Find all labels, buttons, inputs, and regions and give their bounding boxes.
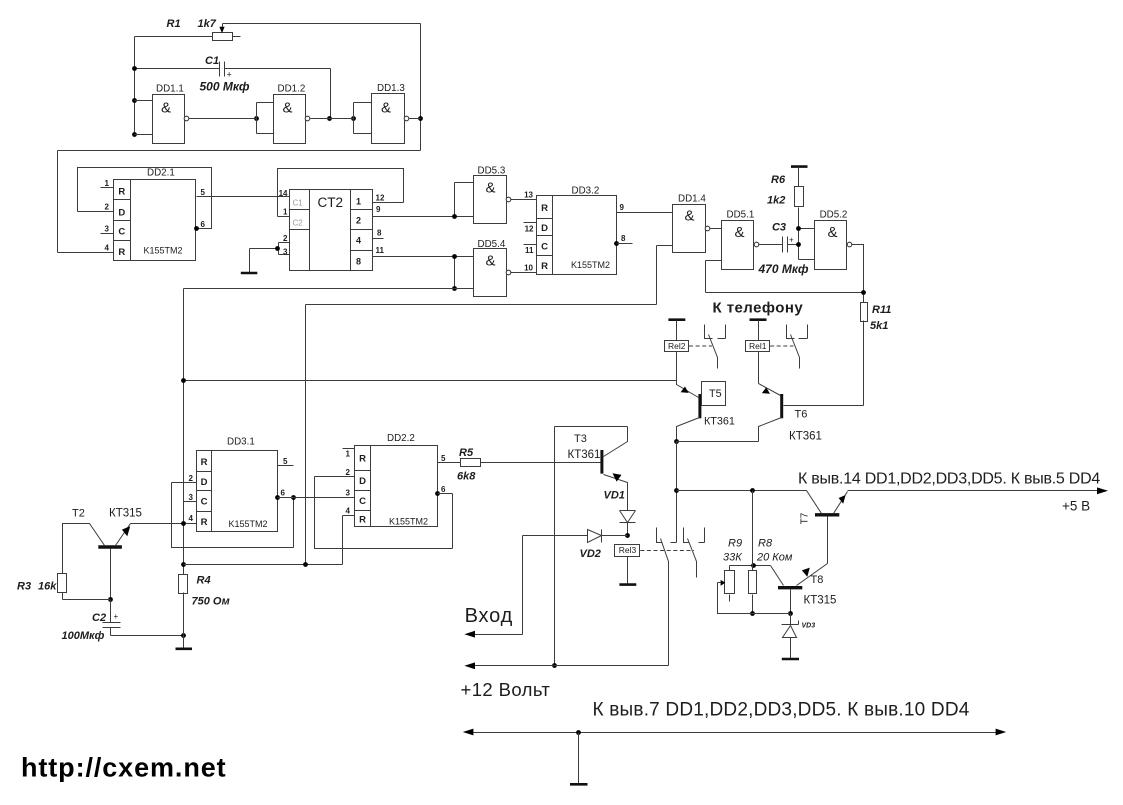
svg-text:4: 4	[105, 243, 110, 252]
svg-text:Т6: Т6	[795, 408, 808, 420]
svg-text:11: 11	[525, 246, 534, 255]
svg-text:Вход: Вход	[465, 605, 513, 627]
svg-text:&: &	[486, 180, 496, 197]
svg-text:DD1.4: DD1.4	[678, 193, 706, 204]
svg-text:DD1.3: DD1.3	[377, 83, 405, 94]
svg-text:+5 В: +5 В	[1062, 499, 1090, 514]
svg-text:5k1: 5k1	[870, 320, 888, 332]
svg-text:C: C	[118, 227, 125, 238]
svg-text:К выв.14 DD1,DD2,DD3,DD5. К вы: К выв.14 DD1,DD2,DD3,DD5. К выв.5 DD4	[798, 471, 1100, 488]
svg-text:1: 1	[356, 197, 361, 207]
svg-text:R1: R1	[167, 18, 181, 30]
svg-text:R4: R4	[197, 575, 211, 587]
svg-text:3: 3	[283, 247, 288, 256]
svg-text:K155TM2: K155TM2	[144, 246, 183, 256]
svg-text:9: 9	[620, 203, 625, 212]
svg-text:K155TM2: K155TM2	[571, 260, 610, 270]
svg-text:5: 5	[283, 457, 288, 466]
svg-text:Т8: Т8	[811, 574, 824, 586]
svg-text:Т3: Т3	[574, 433, 587, 445]
svg-text:2: 2	[105, 203, 110, 212]
svg-text:R6: R6	[771, 174, 786, 186]
svg-text:+12 Вольт: +12 Вольт	[461, 679, 551, 700]
svg-text:6: 6	[281, 489, 286, 498]
svg-text:8: 8	[377, 229, 382, 238]
svg-text:R9: R9	[728, 538, 742, 550]
svg-text:&: &	[735, 224, 745, 241]
svg-text:R5: R5	[459, 447, 474, 459]
svg-text:&: &	[161, 100, 171, 117]
svg-text:R: R	[201, 457, 208, 468]
svg-text:D: D	[118, 208, 125, 219]
svg-text:100Мкф: 100Мкф	[62, 630, 105, 642]
svg-text:10: 10	[524, 264, 533, 273]
svg-text:R: R	[118, 187, 125, 198]
svg-text:CT2: CT2	[318, 195, 344, 210]
svg-text:1: 1	[346, 450, 351, 459]
svg-text:D: D	[541, 223, 548, 234]
svg-text:D: D	[359, 476, 366, 487]
svg-text:750 Ом: 750 Ом	[192, 596, 230, 608]
svg-text:4: 4	[189, 514, 194, 523]
svg-text:VD2: VD2	[580, 548, 601, 560]
svg-text:6: 6	[441, 485, 446, 494]
svg-text:&: &	[381, 100, 391, 117]
svg-text:КТ361: КТ361	[568, 449, 601, 461]
svg-text:Rel2: Rel2	[668, 341, 686, 351]
svg-text:1: 1	[105, 179, 110, 188]
svg-text:C1: C1	[205, 55, 219, 67]
svg-text:C: C	[201, 497, 208, 508]
svg-text:К телефону: К телефону	[713, 300, 804, 317]
svg-text:C: C	[359, 496, 366, 507]
svg-text:6k8: 6k8	[457, 471, 476, 483]
svg-text:33К: 33К	[723, 552, 742, 564]
svg-text:4: 4	[356, 236, 361, 246]
svg-text:9: 9	[376, 205, 381, 214]
svg-text:5: 5	[441, 454, 446, 463]
svg-text:http://cxem.net: http://cxem.net	[21, 753, 227, 783]
svg-text:DD5.1: DD5.1	[727, 209, 755, 220]
svg-text:8: 8	[621, 234, 626, 243]
svg-text:2: 2	[346, 468, 351, 477]
svg-text:13: 13	[524, 191, 533, 200]
svg-text:Rel1: Rel1	[749, 341, 767, 351]
svg-text:2: 2	[356, 216, 361, 226]
svg-text:&: &	[486, 252, 496, 269]
svg-text:VD3: VD3	[802, 623, 816, 630]
svg-text:C1: C1	[293, 199, 304, 208]
svg-text:3: 3	[189, 493, 194, 502]
svg-text:1k2: 1k2	[767, 195, 785, 207]
svg-text:470 Мкф: 470 Мкф	[758, 262, 809, 276]
svg-text:КТ315: КТ315	[804, 595, 837, 607]
svg-text:R8: R8	[758, 538, 773, 550]
svg-text:Т2: Т2	[72, 508, 85, 520]
svg-text:8: 8	[356, 257, 361, 267]
svg-text:DD2.2: DD2.2	[387, 433, 415, 444]
svg-text:VD1: VD1	[604, 490, 625, 502]
svg-text:C2: C2	[293, 219, 304, 228]
svg-text:R: R	[118, 247, 125, 258]
svg-text:R: R	[359, 454, 366, 465]
svg-text:DD3.2: DD3.2	[572, 185, 600, 196]
svg-text:R: R	[541, 261, 548, 272]
svg-text:+: +	[789, 236, 794, 245]
svg-text:C: C	[541, 242, 548, 253]
svg-text:R: R	[541, 203, 548, 214]
svg-text:К выв.7 DD1,DD2,DD3,DD5. К выв: К выв.7 DD1,DD2,DD3,DD5. К выв.10 DD4	[593, 700, 970, 721]
svg-text:КТ315: КТ315	[109, 508, 142, 520]
svg-text:DD1.2: DD1.2	[278, 84, 306, 95]
svg-text:DD3.1: DD3.1	[227, 437, 255, 448]
svg-text:5: 5	[201, 188, 206, 197]
svg-text:C3: C3	[772, 222, 786, 234]
svg-text:16k: 16k	[38, 581, 57, 593]
svg-text:4: 4	[346, 507, 351, 516]
svg-text:12: 12	[376, 194, 385, 203]
svg-text:2: 2	[189, 474, 194, 483]
svg-text:3: 3	[346, 489, 351, 498]
svg-text:D: D	[201, 477, 208, 488]
svg-text:R3: R3	[17, 581, 31, 593]
svg-text:КТ361: КТ361	[704, 416, 735, 428]
svg-text:Т7: Т7	[800, 512, 811, 524]
svg-text:&: &	[283, 100, 293, 117]
svg-text:DD2.1: DD2.1	[147, 168, 175, 179]
svg-text:&: &	[828, 224, 838, 241]
svg-text:R: R	[359, 515, 366, 526]
svg-text:12: 12	[525, 225, 534, 234]
svg-text:R: R	[201, 517, 208, 528]
svg-text:K155TM2: K155TM2	[389, 517, 428, 527]
svg-text:DD5.2: DD5.2	[820, 209, 848, 220]
svg-text:6: 6	[201, 220, 206, 229]
svg-text:+: +	[227, 70, 232, 80]
svg-text:Rel3: Rel3	[619, 545, 637, 555]
svg-text:500 Мкф: 500 Мкф	[200, 80, 250, 94]
svg-text:14: 14	[279, 189, 288, 198]
svg-text:КТ361: КТ361	[789, 430, 822, 442]
svg-text:C2: C2	[92, 612, 106, 624]
svg-text:K155TM2: K155TM2	[229, 519, 268, 529]
svg-text:2: 2	[283, 234, 288, 243]
svg-text:11: 11	[376, 246, 385, 255]
svg-text:1: 1	[283, 208, 288, 217]
svg-text:R11: R11	[872, 304, 891, 316]
svg-text:Т5: Т5	[709, 388, 722, 400]
svg-text:DD5.3: DD5.3	[478, 166, 506, 177]
svg-text:1k7: 1k7	[198, 18, 217, 30]
svg-text:3: 3	[105, 225, 110, 234]
svg-text:+: +	[114, 612, 119, 621]
svg-text:&: &	[685, 208, 695, 225]
svg-text:DD5.4: DD5.4	[478, 239, 506, 250]
svg-text:20 Ком: 20 Ком	[756, 552, 793, 564]
svg-text:DD1.1: DD1.1	[156, 84, 184, 95]
